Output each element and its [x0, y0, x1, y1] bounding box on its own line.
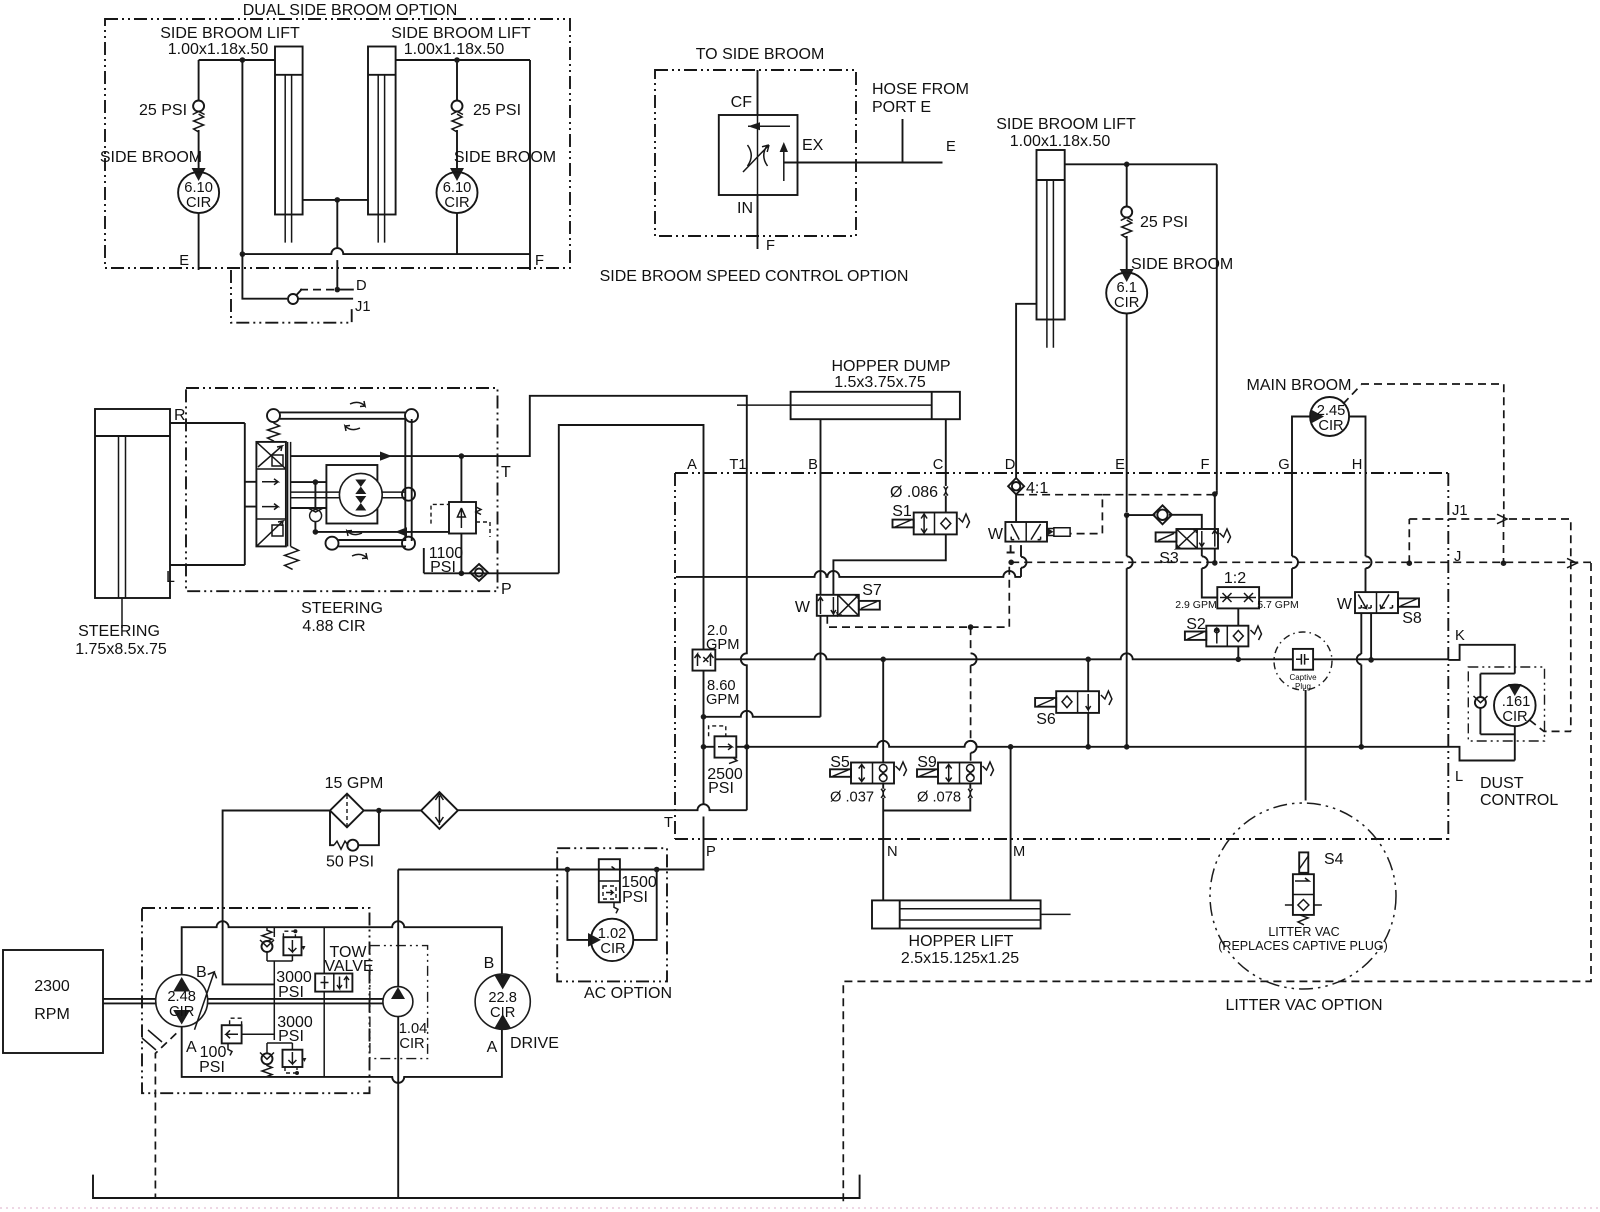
- solenoid valve S5: [830, 754, 907, 784]
- pump 1.04 CIR: [370, 946, 428, 1059]
- svg-text:1.02: 1.02: [598, 926, 627, 942]
- wire drive motor loop to tank lines: [93, 1175, 860, 1198]
- dashed line J: [1011, 558, 1591, 567]
- dashed pilot S7 S9: [827, 562, 1009, 762]
- svg-text:DUAL SIDE BROOM OPTION: DUAL SIDE BROOM OPTION: [243, 2, 458, 19]
- wire F line from cylinder top: [1216, 164, 1218, 491]
- check valve steering: [308, 482, 323, 535]
- wire S5 S9 to port N: [883, 659, 970, 900]
- solenoid valve S4 litter vac: [1218, 851, 1388, 953]
- steering unit dash-dot box: [186, 388, 498, 635]
- wire captive plug drain: [1305, 690, 1307, 801]
- svg-text:SIDE BROOM SPEED CONTROL OPTIO: SIDE BROOM SPEED CONTROL OPTION: [600, 268, 909, 285]
- svg-text:EX: EX: [802, 137, 824, 154]
- check valve 50 PSI bypass: [326, 811, 379, 871]
- wire S6 connections: [1085, 657, 1091, 747]
- svg-text:F: F: [766, 238, 775, 254]
- svg-text:CF: CF: [731, 94, 753, 111]
- relief valve 1100 PSI: [429, 456, 490, 576]
- svg-text:STEERING: STEERING: [78, 623, 160, 640]
- wire main broom H side: [1349, 417, 1366, 474]
- svg-text:CIR: CIR: [444, 195, 469, 211]
- dual side broom option box: [105, 2, 570, 268]
- svg-text:B: B: [808, 457, 818, 473]
- motor main broom 2.45 CIR: [1247, 377, 1352, 436]
- motor drive 22.8 CIR: [475, 955, 559, 1056]
- svg-text:2.9 GPM: 2.9 GPM: [1175, 599, 1216, 611]
- wire EX to port E: [784, 119, 956, 163]
- svg-text:F: F: [535, 253, 544, 269]
- svg-text:SIDE BROOM LIFT: SIDE BROOM LIFT: [160, 25, 300, 42]
- svg-text:AC OPTION: AC OPTION: [584, 985, 672, 1002]
- wire S8 outputs: [1357, 613, 1374, 747]
- svg-text:A: A: [186, 1039, 197, 1056]
- wire gallery 659 divider east: [715, 653, 1293, 662]
- mechanical pipe top: [267, 401, 418, 431]
- svg-text:DUST: DUST: [1480, 775, 1524, 792]
- orifice .078: [917, 789, 973, 806]
- node D wire with junction: [335, 260, 367, 294]
- wire steering upper motor branch: [291, 479, 327, 485]
- svg-text:6.1: 6.1: [1116, 280, 1136, 296]
- cylinder side broom lift left: [275, 47, 303, 243]
- cylinder hopper lift: [872, 900, 1071, 967]
- svg-text:4.88 CIR: 4.88 CIR: [302, 618, 365, 635]
- motor side broom 6.10 CIR right: [437, 149, 557, 213]
- manifold top border with ports: [675, 457, 1448, 473]
- mechanical pipe right: [402, 419, 415, 541]
- svg-text:1.00x1.18x.50: 1.00x1.18x.50: [404, 41, 505, 58]
- svg-text:F: F: [1201, 457, 1210, 473]
- orifice .037: [830, 789, 885, 806]
- svg-text:H: H: [1352, 457, 1363, 473]
- svg-text:CIR: CIR: [1114, 295, 1139, 311]
- wire P vertical main: [398, 467, 706, 870]
- engine 2300 RPM box: [3, 950, 103, 1053]
- solenoid valve S6: [1035, 691, 1112, 728]
- svg-text:W: W: [795, 599, 811, 616]
- wire pump loop top: [182, 921, 502, 974]
- svg-text:25 PSI: 25 PSI: [1140, 214, 1188, 231]
- spring steering valve bottom: [285, 546, 299, 569]
- svg-text:HOPPER DUMP: HOPPER DUMP: [831, 358, 950, 375]
- pump case drain dashed: [155, 1033, 176, 1199]
- wire steering return branch: [315, 527, 449, 536]
- svg-text:Ø .037: Ø .037: [830, 790, 874, 806]
- svg-text:15 GPM: 15 GPM: [325, 775, 384, 792]
- svg-text:W: W: [988, 526, 1004, 543]
- svg-text:K: K: [1455, 628, 1465, 644]
- svg-text:SIDE BROOM: SIDE BROOM: [100, 149, 202, 166]
- wire G to 1:2: [1259, 473, 1298, 598]
- svg-text:SIDE BROOM LIFT: SIDE BROOM LIFT: [996, 116, 1136, 133]
- manifold left border: [664, 473, 675, 839]
- wire steering lower motor branch: [291, 507, 327, 509]
- wire steering L: [166, 565, 245, 586]
- wire E line from motor down: [1126, 314, 1128, 513]
- wire S2 to gallery: [1236, 646, 1242, 662]
- svg-text:E: E: [1115, 457, 1125, 473]
- gerotor motor steering: [291, 465, 406, 524]
- svg-text:CIR: CIR: [1318, 418, 1343, 434]
- svg-text:Ø .078: Ø .078: [917, 790, 961, 806]
- svg-text:R: R: [174, 407, 186, 424]
- cylinder side broom lift right: [368, 47, 396, 243]
- svg-text:SIDE BROOM: SIDE BROOM: [454, 149, 556, 166]
- svg-text:A: A: [487, 1039, 498, 1056]
- check valve 25 PSI right: [451, 101, 521, 171]
- wire pump loop bottom: [182, 1027, 502, 1083]
- wire steering T to manifold T1: [498, 396, 747, 467]
- svg-text:CIR: CIR: [399, 1036, 424, 1052]
- svg-text:SIDE BROOM: SIDE BROOM: [1131, 256, 1233, 273]
- svg-text:D: D: [1005, 457, 1016, 473]
- wire 1:2 to S2: [1237, 608, 1239, 625]
- wire S1 output to S7: [833, 534, 945, 594]
- captive plug: [1274, 632, 1448, 691]
- wire E vertical lower: [1127, 515, 1133, 747]
- wire 1.04 output P: [397, 870, 399, 987]
- wire steering valve ports: [245, 423, 257, 565]
- svg-text:M: M: [1013, 844, 1025, 860]
- svg-text:T: T: [664, 815, 673, 831]
- svg-text:5.7 GPM: 5.7 GPM: [1257, 599, 1298, 611]
- svg-text:1.00x1.18x.50: 1.00x1.18x.50: [168, 41, 269, 58]
- wire W valve to J line: [1007, 545, 1015, 565]
- wire D line from cylinder left: [1016, 304, 1036, 478]
- svg-text:S8: S8: [1402, 610, 1422, 627]
- svg-text:N: N: [887, 844, 898, 860]
- svg-text:(REPLACES CAPTIVE PLUG): (REPLACES CAPTIVE PLUG): [1218, 939, 1388, 953]
- svg-text:PSI: PSI: [622, 889, 648, 906]
- wire cylinder top port: [1065, 162, 1217, 207]
- svg-text:6.10: 6.10: [184, 180, 213, 196]
- svg-text:LITTER VAC OPTION: LITTER VAC OPTION: [1225, 997, 1382, 1014]
- svg-text:S4: S4: [1324, 851, 1344, 868]
- svg-text:D: D: [356, 278, 367, 294]
- pilot valve W at D: [988, 522, 1070, 543]
- spring steering valve top: [268, 423, 280, 442]
- flow divider 2.0 8.60 GPM: [693, 623, 740, 708]
- svg-text:GPM: GPM: [706, 692, 739, 708]
- svg-text:J1: J1: [355, 299, 371, 315]
- side broom speed control option box: [600, 46, 909, 285]
- svg-text:B: B: [484, 955, 495, 972]
- cooler symbol: [421, 792, 458, 829]
- svg-text:S3: S3: [1159, 550, 1179, 567]
- wire lower connector E to F: [240, 60, 530, 257]
- cylinder hopper dump: [737, 358, 960, 419]
- svg-text:RPM: RPM: [34, 1006, 70, 1023]
- drive shaft: [103, 999, 384, 1004]
- motor side broom 6.10 CIR left: [100, 149, 219, 213]
- faint page edge dotted: [0, 1207, 1600, 1209]
- wire hopper dump port C: [945, 419, 947, 486]
- dashed litter vac option boundary: [843, 563, 1591, 1205]
- svg-text:DRIVE: DRIVE: [510, 1035, 559, 1052]
- wire hopper B through S7: [820, 616, 822, 717]
- motor side broom 6.1 CIR: [1106, 256, 1233, 314]
- svg-text:E: E: [179, 253, 189, 269]
- check valve E branch: [1124, 505, 1202, 529]
- relief 100 PSI: [199, 1018, 274, 1076]
- wire P line through AC: [398, 869, 703, 871]
- cylinder side broom lift single: [996, 116, 1136, 348]
- wire 1.04 case drain: [397, 1017, 399, 1199]
- tow valve: [315, 927, 373, 1077]
- svg-text:PORT E: PORT E: [872, 99, 931, 116]
- check valve 4:1: [1008, 478, 1048, 522]
- svg-text:L: L: [166, 569, 175, 586]
- relief 3000 PSI A side: [260, 1014, 313, 1077]
- svg-text:HOPPER LIFT: HOPPER LIFT: [909, 933, 1014, 950]
- svg-text:Captive: Captive: [1289, 673, 1317, 682]
- svg-text:CIR: CIR: [169, 1004, 194, 1020]
- dashed pilot main broom to J1: [1343, 384, 1504, 519]
- svg-text:CIR: CIR: [490, 1005, 515, 1021]
- svg-text:25 PSI: 25 PSI: [473, 102, 521, 119]
- dashed line J1: [1409, 503, 1571, 731]
- svg-text:2300: 2300: [34, 978, 70, 995]
- svg-text:T1: T1: [729, 457, 746, 473]
- svg-text:CIR: CIR: [1502, 709, 1527, 725]
- svg-text:G: G: [1278, 457, 1289, 473]
- wire port F vertical: [530, 60, 544, 270]
- wire gallery 577 tank: [676, 545, 1027, 577]
- svg-text:J1: J1: [1452, 503, 1468, 519]
- svg-text:1.00x1.18x.50: 1.00x1.18x.50: [1010, 133, 1111, 150]
- svg-text:STEERING: STEERING: [301, 600, 383, 617]
- svg-text:6.10: 6.10: [443, 180, 472, 196]
- svg-text:GPM: GPM: [706, 637, 739, 653]
- check valve steering P: [424, 548, 559, 598]
- flow divider 1:2: [1175, 570, 1298, 611]
- svg-text:1.75x8.5x.75: 1.75x8.5x.75: [75, 641, 167, 658]
- dust control motor .161 CIR: [1468, 667, 1571, 809]
- orifice .086: [890, 484, 948, 513]
- svg-text:MAIN BROOM: MAIN BROOM: [1247, 377, 1352, 394]
- wire main broom G side: [1292, 417, 1310, 474]
- svg-text:1.04: 1.04: [399, 1021, 428, 1037]
- wire port M vertical: [1010, 747, 1012, 901]
- steering spool valve: [256, 442, 290, 547]
- svg-text:LITTER VAC: LITTER VAC: [1268, 925, 1339, 939]
- svg-text:PSI: PSI: [199, 1059, 225, 1076]
- quick disconnect valve J1: [242, 254, 370, 315]
- relief valve 1500 PSI: [599, 859, 657, 913]
- wire cap end left cylinder: [199, 57, 275, 100]
- solenoid valve S8: [1337, 592, 1422, 627]
- solenoid valve S9: [917, 754, 994, 784]
- svg-text:1.5x3.75x.75: 1.5x3.75x.75: [834, 374, 926, 391]
- wire steering P to manifold A: [559, 425, 704, 573]
- svg-text:IN: IN: [737, 200, 753, 217]
- svg-text:TO SIDE BROOM: TO SIDE BROOM: [696, 46, 825, 63]
- dash-dot connector sub box: [231, 270, 352, 323]
- svg-text:PSI: PSI: [278, 984, 304, 1001]
- wire steering T internal: [291, 452, 511, 482]
- dashed pilot 4:1 to W valve: [1016, 491, 1218, 533]
- svg-text:W: W: [1337, 596, 1353, 613]
- flow control valve CF EX IN: [719, 70, 824, 254]
- cylinder steering 1.75x8.5x.75: [75, 409, 170, 658]
- svg-text:2.48: 2.48: [167, 989, 196, 1005]
- svg-text:P: P: [706, 844, 716, 860]
- svg-text:2.45: 2.45: [1317, 403, 1346, 419]
- solenoid valve S2: [1185, 616, 1262, 646]
- wire cap end right cylinder: [396, 57, 530, 100]
- svg-text:HOSE FROM: HOSE FROM: [872, 81, 969, 98]
- wire F vertical lower: [1215, 491, 1217, 563]
- relief 3000 PSI B side: [260, 927, 312, 1040]
- pump block dash-dot box: [142, 908, 370, 1093]
- wire return gallery 746: [747, 741, 1515, 761]
- svg-text:T: T: [501, 464, 511, 481]
- svg-text:2.5x15.125x1.25: 2.5x15.125x1.25: [901, 950, 1019, 967]
- svg-text:S2: S2: [1186, 616, 1206, 633]
- solenoid valve S3: [1156, 529, 1231, 567]
- motor AC 1.02 CIR: [565, 867, 660, 961]
- svg-text:S6: S6: [1036, 711, 1056, 728]
- wire 8.60 branch B line step: [704, 711, 821, 717]
- label hose from port E: [872, 81, 969, 116]
- svg-text:S1: S1: [892, 503, 912, 520]
- pump 2.48 CIR: [142, 964, 217, 1056]
- svg-text:PSI: PSI: [708, 780, 734, 797]
- svg-text:E: E: [946, 139, 956, 155]
- svg-text:S7: S7: [862, 582, 882, 599]
- check valve 25 PSI lift: [1121, 207, 1188, 272]
- svg-text:L: L: [1455, 769, 1463, 785]
- mechanical pipe bottom: [326, 531, 416, 559]
- filter 15 GPM: [325, 775, 384, 827]
- svg-text:P: P: [501, 581, 512, 598]
- svg-text:22.8: 22.8: [488, 990, 517, 1006]
- wire steering R: [170, 407, 245, 424]
- svg-text:25 PSI: 25 PSI: [139, 102, 187, 119]
- wire H to S8: [1366, 473, 1372, 592]
- manifold bottom border: [675, 839, 1448, 860]
- svg-text:CONTROL: CONTROL: [1480, 792, 1558, 809]
- svg-text:Ø .086: Ø .086: [890, 484, 938, 501]
- wire hopper dump port B: [820, 419, 822, 595]
- svg-text:SIDE BROOM LIFT: SIDE BROOM LIFT: [391, 25, 531, 42]
- check valve 25 PSI left: [139, 101, 205, 171]
- wire motor to port E: [179, 213, 198, 270]
- wire T return line: [223, 804, 747, 984]
- manifold right border: [1448, 473, 1465, 840]
- solenoid valve S1: [892, 503, 969, 534]
- svg-text:VALVE: VALVE: [324, 958, 373, 975]
- solenoid valve S7: [795, 582, 882, 616]
- svg-text:B: B: [196, 964, 207, 981]
- wire rod ends junction to node D: [303, 197, 368, 248]
- wire K port to dust control: [1448, 645, 1515, 674]
- svg-text:CIR: CIR: [186, 195, 211, 211]
- svg-text:.161: .161: [1502, 694, 1531, 710]
- AC option box: [557, 848, 672, 1002]
- svg-text:A: A: [687, 457, 697, 473]
- relief valve 2500 PSI: [704, 726, 747, 797]
- wire S3 check to 1:2: [1202, 549, 1218, 598]
- litter vac option circle: [1210, 803, 1396, 1014]
- svg-text:C: C: [933, 457, 944, 473]
- svg-text:50 PSI: 50 PSI: [326, 854, 374, 871]
- wire T1 vertical: [741, 467, 750, 810]
- svg-text:1:2: 1:2: [1224, 570, 1246, 587]
- wire motor right to connector: [456, 213, 458, 254]
- svg-text:CIR: CIR: [600, 941, 625, 957]
